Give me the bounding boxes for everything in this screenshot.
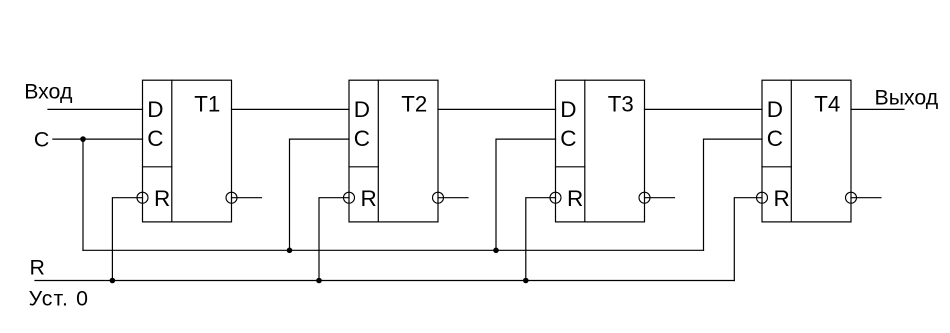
wire clock bus <box>83 249 704 251</box>
wire T3 Q to T4 D <box>645 108 763 110</box>
svg-text:R: R <box>361 186 377 211</box>
T1 inverse output bubble <box>226 192 237 203</box>
junction reset bus to T2 riser <box>316 278 322 284</box>
wire clock riser to T2 C pin <box>290 139 350 250</box>
wire T1 Q to T2 D <box>232 108 350 110</box>
svg-text:R: R <box>774 186 790 211</box>
flip-flop T2 <box>344 80 469 222</box>
svg-text:C: C <box>560 126 576 151</box>
T1 R inversion bubble <box>137 192 148 203</box>
svg-text:D: D <box>147 97 163 122</box>
flip-flop T3 <box>550 80 675 222</box>
svg-text:R: R <box>154 186 170 211</box>
T4 inverse output bubble <box>846 192 857 203</box>
T1 inverse output stub <box>232 197 262 199</box>
flip-flop T4 <box>757 80 882 222</box>
svg-text:T3: T3 <box>608 92 634 117</box>
junction clock bus to T2 riser <box>287 248 293 254</box>
junction clock bus to T3 riser <box>493 248 499 254</box>
wire clock riser to T3 C pin <box>496 139 556 250</box>
T2 body <box>349 80 438 222</box>
svg-text:C: C <box>767 126 783 151</box>
svg-text:D: D <box>767 97 783 122</box>
wire reset riser to T1 R pin <box>112 198 142 281</box>
T1 body <box>143 80 232 222</box>
T3 R inversion bubble <box>550 192 561 203</box>
flip-flop T1 <box>137 80 262 222</box>
svg-text:T1: T1 <box>194 92 220 117</box>
T4 R inversion bubble <box>757 192 768 203</box>
junction on C wire <box>80 136 86 142</box>
T2 R inversion bubble <box>344 192 355 203</box>
T3 inverse output bubble <box>639 192 650 203</box>
svg-text:R: R <box>567 186 583 211</box>
T3 body <box>556 80 645 222</box>
svg-text:C: C <box>34 127 49 151</box>
svg-text:D: D <box>560 97 576 122</box>
svg-text:T2: T2 <box>401 92 427 117</box>
wire reset riser to T3 R pin <box>526 198 556 281</box>
svg-text:Уст. 0: Уст. 0 <box>29 287 89 311</box>
svg-text:Выход: Выход <box>875 86 939 110</box>
T4 inverse output stub <box>851 197 881 199</box>
junction reset bus to T3 riser <box>523 278 529 284</box>
T4 body <box>762 80 851 222</box>
wire reset riser to T4 R pin <box>734 198 762 281</box>
svg-text:Вход: Вход <box>24 80 73 104</box>
wire clock riser to T4 C pin <box>704 139 763 250</box>
svg-text:T4: T4 <box>814 92 840 117</box>
wire reset bus <box>35 280 734 282</box>
svg-text:C: C <box>147 126 163 151</box>
svg-text:C: C <box>354 126 370 151</box>
wire T4 Q to output <box>851 108 904 110</box>
T3 inverse output stub <box>645 197 675 199</box>
wire input to T1 D <box>48 108 143 110</box>
wire T2 Q to T3 D <box>438 108 556 110</box>
wire C label to T1 C pin <box>53 138 143 140</box>
svg-text:D: D <box>354 97 370 122</box>
junction reset bus to T1 riser <box>110 278 116 284</box>
T2 inverse output stub <box>438 197 468 199</box>
wire C drop to clock bus <box>82 139 84 250</box>
T2 inverse output bubble <box>433 192 444 203</box>
wire reset riser to T2 R pin <box>319 198 349 281</box>
svg-text:R: R <box>30 256 45 280</box>
